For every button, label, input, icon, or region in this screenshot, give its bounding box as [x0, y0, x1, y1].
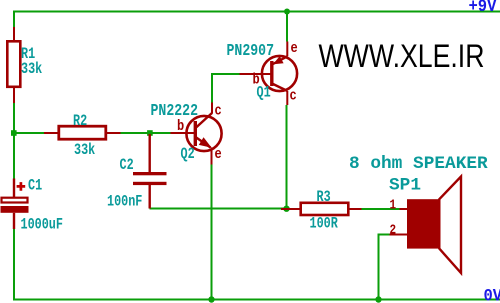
svg-text:Q2: Q2: [181, 147, 195, 164]
svg-text:WWW.XLE.IR: WWW.XLE.IR: [319, 38, 485, 74]
wire Q2 collector to Q1 base: [212, 74, 240, 103]
Q1 collector diagonal: [272, 84, 288, 92]
svg-text:1000uF: 1000uF: [21, 217, 63, 234]
wire Q1 collector down: [286, 105, 288, 209]
wire Q1 emitter to top rail: [286, 12, 288, 42]
wire C2 bottom row: [150, 208, 287, 210]
capacitor C1 electrolytic polarized: [1, 178, 63, 234]
svg-text:b: b: [177, 119, 184, 136]
node junction Q1 collector / R3 / C2 row: [283, 206, 289, 212]
svg-text:SP1: SP1: [389, 176, 421, 196]
svg-text:e: e: [291, 41, 298, 58]
Q2 base bar: [194, 121, 197, 146]
Q1 emitter arrow PNP inward: [275, 57, 283, 63]
Q2 emitter diagonal: [196, 137, 211, 148]
node junction top rail / Q1 emitter: [284, 9, 290, 15]
transistor Q2 PN2222 NPN: [151, 103, 222, 165]
Q2 collector diagonal: [196, 113, 213, 128]
svg-text:33k: 33k: [74, 142, 95, 160]
svg-text:1: 1: [390, 198, 397, 213]
SP1 body: [407, 199, 439, 248]
wire bottom rail 0V: [13, 299, 500, 301]
Q2 emitter lead: [211, 148, 213, 165]
svg-text:e: e: [215, 147, 222, 164]
SP1 pin 1 lead: [400, 208, 408, 210]
svg-text:Q1: Q1: [257, 85, 271, 102]
svg-text:100nF: 100nF: [107, 194, 142, 211]
Q1 base bar: [270, 61, 273, 86]
Q1 emitter lead: [286, 42, 288, 57]
Q2 base pin: [171, 132, 196, 134]
speaker SP1: [349, 154, 488, 273]
node junction R2 / C2 / Q2 base: [147, 130, 153, 136]
wire R3 to speaker pin 1: [362, 208, 400, 210]
svg-text:PN2222: PN2222: [151, 103, 199, 121]
wire base row to R2 and Q2: [14, 132, 171, 134]
resistor R2: [44, 114, 121, 160]
svg-text:C2: C2: [120, 158, 134, 175]
SP1 horn cone: [439, 177, 461, 274]
svg-text:100R: 100R: [310, 216, 339, 233]
svg-text:33k: 33k: [21, 60, 42, 78]
C1 plus polarity mark: [17, 182, 26, 191]
wire left rail: [13, 11, 15, 301]
resistor R1: [7, 27, 42, 103]
svg-text:0V: 0V: [484, 286, 500, 303]
wire Q2 emitter down to bottom rail: [211, 165, 213, 300]
node junction left rail / R2 base row: [11, 130, 17, 136]
svg-text:R3: R3: [317, 190, 331, 207]
wire speaker pin 2 to bottom rail: [379, 235, 390, 300]
svg-text:8 ohm SPEAKER: 8 ohm SPEAKER: [349, 154, 488, 174]
svg-text:c: c: [290, 88, 297, 105]
svg-text:PN2907: PN2907: [227, 43, 275, 61]
SP1 pin 2 lead: [390, 234, 408, 236]
svg-text:+9V: +9V: [469, 0, 497, 16]
svg-text:c: c: [215, 103, 222, 120]
svg-text:C1: C1: [28, 178, 42, 195]
svg-text:R2: R2: [73, 114, 87, 131]
Q2 collector lead: [211, 103, 213, 114]
node junction Q2 emitter / bottom rail: [208, 296, 214, 302]
Q1 base pin: [240, 73, 272, 75]
transistor Q1 PN2907 PNP: [227, 41, 298, 105]
Q1 emitter diagonal: [272, 56, 288, 64]
svg-text:2: 2: [390, 223, 397, 238]
wire top rail +9V: [13, 11, 500, 13]
Q1 collector lead: [286, 91, 288, 105]
capacitor C2: [107, 134, 167, 211]
resistor R3: [281, 190, 362, 234]
Q2 emitter arrow NPN outward: [200, 139, 210, 147]
node junction speaker pin 2 / bottom rail: [375, 296, 381, 302]
